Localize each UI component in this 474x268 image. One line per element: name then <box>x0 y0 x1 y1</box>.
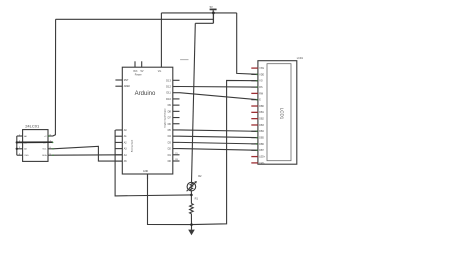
pin LCD 13 DB6 <box>251 143 258 145</box>
svg-text:LED+: LED+ <box>259 156 265 158</box>
pin D1 <box>173 154 180 156</box>
pin D13 <box>173 79 180 81</box>
svg-text:D11: D11 <box>166 91 171 95</box>
wire arduino GND to ground node <box>148 174 192 225</box>
wire LCD VO to ground <box>192 80 258 224</box>
pin LCD 3 VO <box>251 80 258 82</box>
wire Vin riser <box>160 13 162 67</box>
svg-text:D5: D5 <box>168 128 172 132</box>
pin EEPROM A2 <box>17 148 23 150</box>
svg-text:DB4: DB4 <box>259 131 264 133</box>
pin A4 <box>115 154 122 156</box>
pin D6 <box>173 123 180 125</box>
pin D7 <box>173 117 180 119</box>
svg-text:Power: Power <box>135 74 142 77</box>
pin EEPROM WP <box>48 141 53 143</box>
LCD1 display <box>258 61 297 165</box>
pin GND bottom <box>147 174 149 179</box>
pin LCD 1 VSS <box>251 67 258 69</box>
svg-text:VSS: VSS <box>24 155 29 157</box>
svg-text:LED-: LED- <box>259 163 264 165</box>
svg-text:D6: D6 <box>168 122 172 126</box>
svg-text:R1: R1 <box>195 197 199 201</box>
pin LCD 12 DB5 <box>251 137 258 139</box>
pin LCD 14 DB7 <box>251 149 258 151</box>
wire pot riser from 5V <box>192 23 196 182</box>
svg-text:DB5: DB5 <box>259 138 264 140</box>
pin LCD 7 DB0 <box>251 105 258 107</box>
pin A2 <box>115 141 122 143</box>
svg-text:LCD1: LCD1 <box>279 108 284 120</box>
svg-text:RS: RS <box>259 87 263 89</box>
pin LCD 16 LED- <box>251 162 258 164</box>
node green endpoints LCD <box>256 74 258 151</box>
svg-text:GND: GND <box>143 170 149 173</box>
wire 5V horizontal main <box>161 12 236 14</box>
wire EEPROM WP across body <box>17 141 53 143</box>
pin EEPROM A1 <box>17 141 23 143</box>
pin RST <box>115 79 122 81</box>
pin LCD 6 E <box>251 99 258 101</box>
pin LCD 9 DB2 <box>251 118 258 120</box>
junction EEPROM tie A2 <box>16 148 18 150</box>
wire D2 to LCD DB7 <box>180 149 258 151</box>
pin D5 <box>173 129 180 131</box>
wire 5V rail to EEPROM riser <box>56 18 214 20</box>
wire D5 to LCD DB4 <box>180 130 258 131</box>
wire D3 to LCD DB6 <box>180 142 258 144</box>
svg-text:24LC01: 24LC01 <box>25 124 40 129</box>
pin LCD 8 DB1 <box>251 111 258 113</box>
pin EEPROM SCL <box>48 148 53 150</box>
IC U1 Arduino <box>122 67 173 174</box>
svg-text:DB2: DB2 <box>259 119 264 121</box>
pin EEPROM SDA <box>48 154 53 156</box>
ground symbol <box>188 225 195 236</box>
pin A3 <box>115 148 122 150</box>
svg-text:DB1: DB1 <box>259 112 264 114</box>
pin D10 <box>173 98 180 100</box>
svg-text:5V: 5V <box>210 5 213 9</box>
svg-text:Arduino: Arduino <box>135 91 156 97</box>
node green endpoints EEPROM <box>48 135 54 156</box>
wire 5V jog down at junction <box>212 13 214 23</box>
label faint part designator <box>180 59 188 61</box>
pin D4 <box>173 135 180 137</box>
pin EEPROM A0 <box>17 135 23 137</box>
IC U2 24LC01 EEPROM <box>23 130 48 162</box>
wire LCD VDD riser <box>237 13 258 74</box>
svg-text:D3: D3 <box>168 140 172 144</box>
svg-text:DB3: DB3 <box>259 125 264 127</box>
wire analog bus tie <box>115 130 191 196</box>
wire D4 to LCD DB5 <box>180 136 258 137</box>
svg-text:VSS: VSS <box>259 68 264 70</box>
svg-text:D1: D1 <box>168 153 172 157</box>
power symbol 5V <box>210 5 217 13</box>
wire EEPROM VCC riser <box>49 19 56 136</box>
svg-text:D7: D7 <box>168 116 172 120</box>
svg-text:DB7: DB7 <box>259 150 264 152</box>
pin D9 <box>173 104 180 106</box>
pin LCD 15 LED+ <box>251 156 258 158</box>
svg-text:Digital Input/Output: Digital Input/Output <box>164 108 167 127</box>
pin EEPROM +V <box>48 135 53 137</box>
pin LCD 2 VDD <box>251 73 258 75</box>
pin LCD 10 DB3 <box>251 124 258 126</box>
pin D11 <box>173 92 180 94</box>
junction ground node <box>190 223 193 226</box>
junction pot bottom node <box>190 194 193 197</box>
wire 5V short rail to pot riser <box>195 22 213 24</box>
svg-text:AREF: AREF <box>124 85 131 88</box>
junction EEPROM tie WP <box>16 141 18 143</box>
svg-text:3V3: 3V3 <box>133 70 138 73</box>
wire D11 to LCD E <box>180 93 258 100</box>
svg-text:VO: VO <box>259 81 263 83</box>
pin D0 <box>173 160 180 162</box>
pin AREF <box>115 85 122 87</box>
resistor R1 <box>190 195 194 225</box>
svg-text:LCD1: LCD1 <box>297 57 304 60</box>
pin 5V <box>141 61 143 67</box>
wire EEPROM SCL to A5 <box>53 146 122 161</box>
svg-text:VDD: VDD <box>259 74 264 76</box>
svg-text:RST: RST <box>124 79 129 82</box>
svg-text:DB0: DB0 <box>259 106 264 108</box>
svg-text:SDA: SDA <box>42 154 47 157</box>
wire D12 to LCD RS <box>180 86 258 89</box>
pin 3V3 <box>134 61 136 67</box>
wire EEPROM address tie vertical <box>16 136 18 155</box>
svg-text:Analog Input: Analog Input <box>131 139 134 152</box>
svg-text:D8: D8 <box>168 109 172 113</box>
pin D2 <box>173 148 180 150</box>
pin D12 <box>173 86 180 88</box>
junction power node <box>212 12 215 15</box>
svg-text:D10: D10 <box>166 97 171 101</box>
svg-text:D13: D13 <box>166 78 171 82</box>
pin EEPROM VSS <box>17 154 23 156</box>
pin LCD 11 DB4 <box>251 130 258 132</box>
pin LCD 4 RS <box>251 86 258 88</box>
pin A0 <box>115 129 122 131</box>
svg-text:D12: D12 <box>166 85 171 89</box>
potentiometer R2 <box>187 181 197 191</box>
svg-text:5V: 5V <box>141 70 144 73</box>
svg-text:D4: D4 <box>168 134 172 138</box>
pin A5 <box>115 160 122 162</box>
svg-text:D9: D9 <box>168 103 172 107</box>
svg-text:D2: D2 <box>168 147 172 151</box>
svg-text:D0: D0 <box>168 159 172 163</box>
pin A1 <box>115 135 122 137</box>
svg-text:DB6: DB6 <box>259 144 264 146</box>
pin D8 <box>173 110 180 112</box>
wire EEPROM SDA to A4 <box>53 154 122 156</box>
svg-text:R2: R2 <box>198 174 202 178</box>
pin D3 <box>173 141 180 143</box>
wire pot bottom stub <box>190 191 192 195</box>
pin LCD 5 RW <box>251 92 258 94</box>
